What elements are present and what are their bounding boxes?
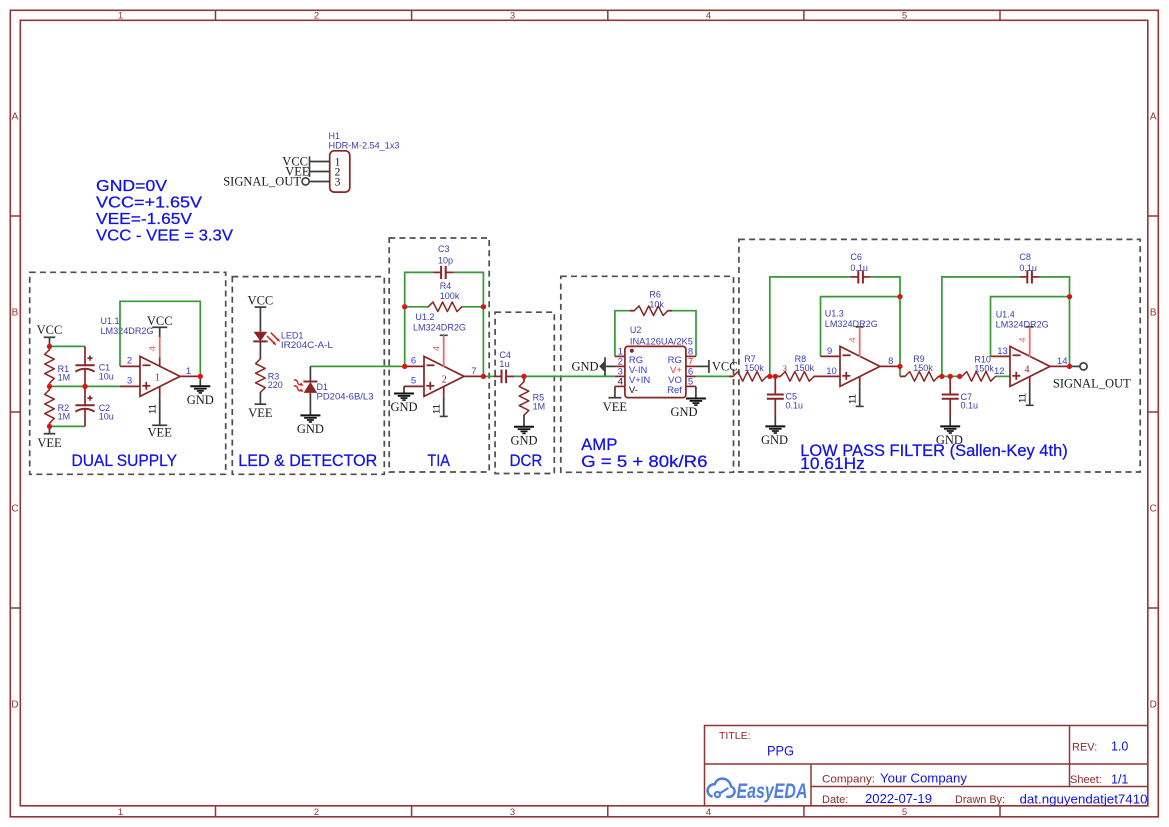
svg-text:LED1: LED1 xyxy=(281,331,304,341)
svg-text:1/1: 1/1 xyxy=(1111,773,1128,787)
svg-text:U1.1: U1.1 xyxy=(101,316,120,326)
svg-text:10.61Hz: 10.61Hz xyxy=(800,454,865,473)
svg-text:3: 3 xyxy=(127,376,132,387)
svg-text:LED & DETECTOR: LED & DETECTOR xyxy=(238,451,377,470)
svg-text:GND: GND xyxy=(936,433,963,447)
svg-text:C6: C6 xyxy=(850,252,862,262)
svg-text:2: 2 xyxy=(442,375,447,386)
svg-text:H1: H1 xyxy=(329,131,341,141)
svg-text:C: C xyxy=(1150,504,1157,515)
svg-text:EasyEDA: EasyEDA xyxy=(737,780,808,803)
svg-text:GND: GND xyxy=(670,405,697,419)
svg-text:3: 3 xyxy=(510,807,515,818)
svg-text:1M: 1M xyxy=(58,412,71,422)
svg-text:1: 1 xyxy=(155,373,160,384)
svg-text:10u: 10u xyxy=(99,412,114,422)
svg-text:GND: GND xyxy=(572,360,599,374)
svg-text:0.1u: 0.1u xyxy=(850,263,868,273)
svg-text:LM324DR2G: LM324DR2G xyxy=(101,326,154,336)
svg-text:150k: 150k xyxy=(744,363,764,373)
svg-text:4: 4 xyxy=(1025,365,1030,376)
svg-text:PD204-6B/L3: PD204-6B/L3 xyxy=(317,391,374,401)
svg-text:DCR: DCR xyxy=(510,451,543,470)
svg-text:13: 13 xyxy=(997,346,1008,357)
svg-text:VCC=+1.65V: VCC=+1.65V xyxy=(96,195,202,212)
svg-text:A: A xyxy=(12,112,19,123)
svg-text:1: 1 xyxy=(118,807,123,818)
svg-text:U1.3: U1.3 xyxy=(825,309,844,319)
svg-text:U1.4: U1.4 xyxy=(996,309,1015,319)
svg-text:4: 4 xyxy=(148,346,159,351)
svg-text:VCC: VCC xyxy=(712,359,738,373)
svg-text:U2: U2 xyxy=(630,325,642,335)
svg-text:10: 10 xyxy=(826,366,837,377)
svg-text:PPG: PPG xyxy=(767,744,794,759)
svg-text:1: 1 xyxy=(186,366,191,377)
svg-text:VCC: VCC xyxy=(248,294,274,308)
svg-text:DUAL SUPPLY: DUAL SUPPLY xyxy=(72,451,178,470)
svg-text:0.1u: 0.1u xyxy=(1019,263,1037,273)
svg-text:INA126UA/2K5: INA126UA/2K5 xyxy=(630,336,693,346)
svg-text:3: 3 xyxy=(510,10,515,21)
svg-text:VEE: VEE xyxy=(37,436,62,450)
svg-text:C8: C8 xyxy=(1019,252,1031,262)
svg-text:VEE: VEE xyxy=(603,400,628,414)
svg-text:IR204C-A-L: IR204C-A-L xyxy=(281,340,333,350)
svg-text:Drawn By:: Drawn By: xyxy=(955,794,1005,806)
svg-text:11: 11 xyxy=(1018,393,1029,403)
svg-text:GND: GND xyxy=(187,393,214,407)
svg-text:5: 5 xyxy=(411,376,416,387)
svg-text:3: 3 xyxy=(335,176,341,188)
svg-text:VEE: VEE xyxy=(148,426,173,440)
svg-text:SIGNAL_OUT: SIGNAL_OUT xyxy=(1053,376,1131,390)
svg-text:4: 4 xyxy=(848,337,859,342)
svg-text:150k: 150k xyxy=(913,363,933,373)
svg-text:1: 1 xyxy=(118,10,123,21)
svg-text:VCC: VCC xyxy=(147,314,173,328)
svg-text:Ref: Ref xyxy=(667,385,682,396)
svg-text:VCC: VCC xyxy=(37,323,63,337)
svg-text:220: 220 xyxy=(268,380,283,390)
svg-text:R6: R6 xyxy=(649,290,661,300)
svg-text:TIA: TIA xyxy=(427,451,450,470)
svg-text:9: 9 xyxy=(827,346,832,357)
svg-text:LM324DR2G: LM324DR2G xyxy=(413,323,466,333)
svg-text:SIGNAL_OUT: SIGNAL_OUT xyxy=(223,174,301,188)
svg-text:8: 8 xyxy=(888,356,893,367)
svg-text:VEE=-1.65V: VEE=-1.65V xyxy=(96,211,192,228)
svg-text:12: 12 xyxy=(994,366,1005,377)
svg-text:1.0: 1.0 xyxy=(1111,740,1128,754)
svg-text:150k: 150k xyxy=(974,364,994,374)
svg-text:5: 5 xyxy=(902,807,907,818)
svg-text:VEE: VEE xyxy=(248,406,273,420)
svg-text:G = 5 + 80k/R6: G = 5 + 80k/R6 xyxy=(581,452,707,471)
svg-text:A: A xyxy=(1150,112,1157,123)
svg-text:HDR-M-2.54_1x3: HDR-M-2.54_1x3 xyxy=(329,141,400,151)
svg-text:10p: 10p xyxy=(438,256,453,266)
svg-text:Company:: Company: xyxy=(822,774,875,786)
svg-text:B: B xyxy=(1150,308,1157,319)
svg-text:14: 14 xyxy=(1057,356,1068,367)
svg-text:TITLE:: TITLE: xyxy=(719,730,751,742)
svg-text:4: 4 xyxy=(1018,337,1029,342)
svg-text:dat.nguyendatjet7410: dat.nguyendatjet7410 xyxy=(1020,793,1148,807)
svg-text:C3: C3 xyxy=(438,244,450,254)
svg-text:Your Company: Your Company xyxy=(880,772,968,786)
svg-text:Sheet:: Sheet: xyxy=(1070,774,1102,786)
svg-text:VCC - VEE = 3.3V: VCC - VEE = 3.3V xyxy=(96,228,233,245)
svg-text:1M: 1M xyxy=(58,373,71,383)
svg-text:0.1u: 0.1u xyxy=(961,401,979,411)
svg-text:REV:: REV: xyxy=(1072,742,1097,754)
svg-text:4: 4 xyxy=(706,807,711,818)
svg-text:2: 2 xyxy=(314,807,319,818)
svg-text:2022-07-19: 2022-07-19 xyxy=(865,792,932,806)
svg-text:5: 5 xyxy=(688,377,693,388)
svg-text:1u: 1u xyxy=(499,359,509,369)
svg-text:10u: 10u xyxy=(99,371,114,381)
svg-text:4: 4 xyxy=(618,377,623,388)
svg-text:C: C xyxy=(11,504,18,515)
svg-text:7: 7 xyxy=(471,366,476,377)
svg-text:V-: V- xyxy=(629,385,638,396)
svg-text:2: 2 xyxy=(127,356,132,367)
svg-text:5: 5 xyxy=(902,10,907,21)
svg-text:10k: 10k xyxy=(649,299,664,309)
svg-text:GND: GND xyxy=(510,433,537,447)
svg-text:D: D xyxy=(1150,700,1157,711)
svg-text:GND: GND xyxy=(297,422,324,436)
svg-text:4: 4 xyxy=(706,10,711,21)
svg-text:150k: 150k xyxy=(795,363,815,373)
svg-text:U1.2: U1.2 xyxy=(415,312,434,322)
svg-text:LM324DR2G: LM324DR2G xyxy=(996,319,1049,329)
svg-text:LM324DR2G: LM324DR2G xyxy=(825,319,878,329)
svg-text:D: D xyxy=(11,700,18,711)
svg-text:B: B xyxy=(12,308,19,319)
svg-text:0.1u: 0.1u xyxy=(786,400,804,410)
svg-text:6: 6 xyxy=(411,356,416,367)
svg-text:2: 2 xyxy=(314,10,319,21)
svg-text:100k: 100k xyxy=(440,291,460,301)
svg-text:R4: R4 xyxy=(440,281,452,291)
svg-text:GND=0V: GND=0V xyxy=(96,178,167,195)
svg-text:1M: 1M xyxy=(533,402,546,412)
svg-text:GND: GND xyxy=(761,433,788,447)
svg-text:11: 11 xyxy=(148,404,159,414)
svg-text:GND: GND xyxy=(390,400,417,414)
svg-text:4: 4 xyxy=(432,346,443,351)
svg-text:Date:: Date: xyxy=(822,794,848,806)
svg-text:11: 11 xyxy=(432,404,443,414)
svg-text:11: 11 xyxy=(848,394,859,404)
